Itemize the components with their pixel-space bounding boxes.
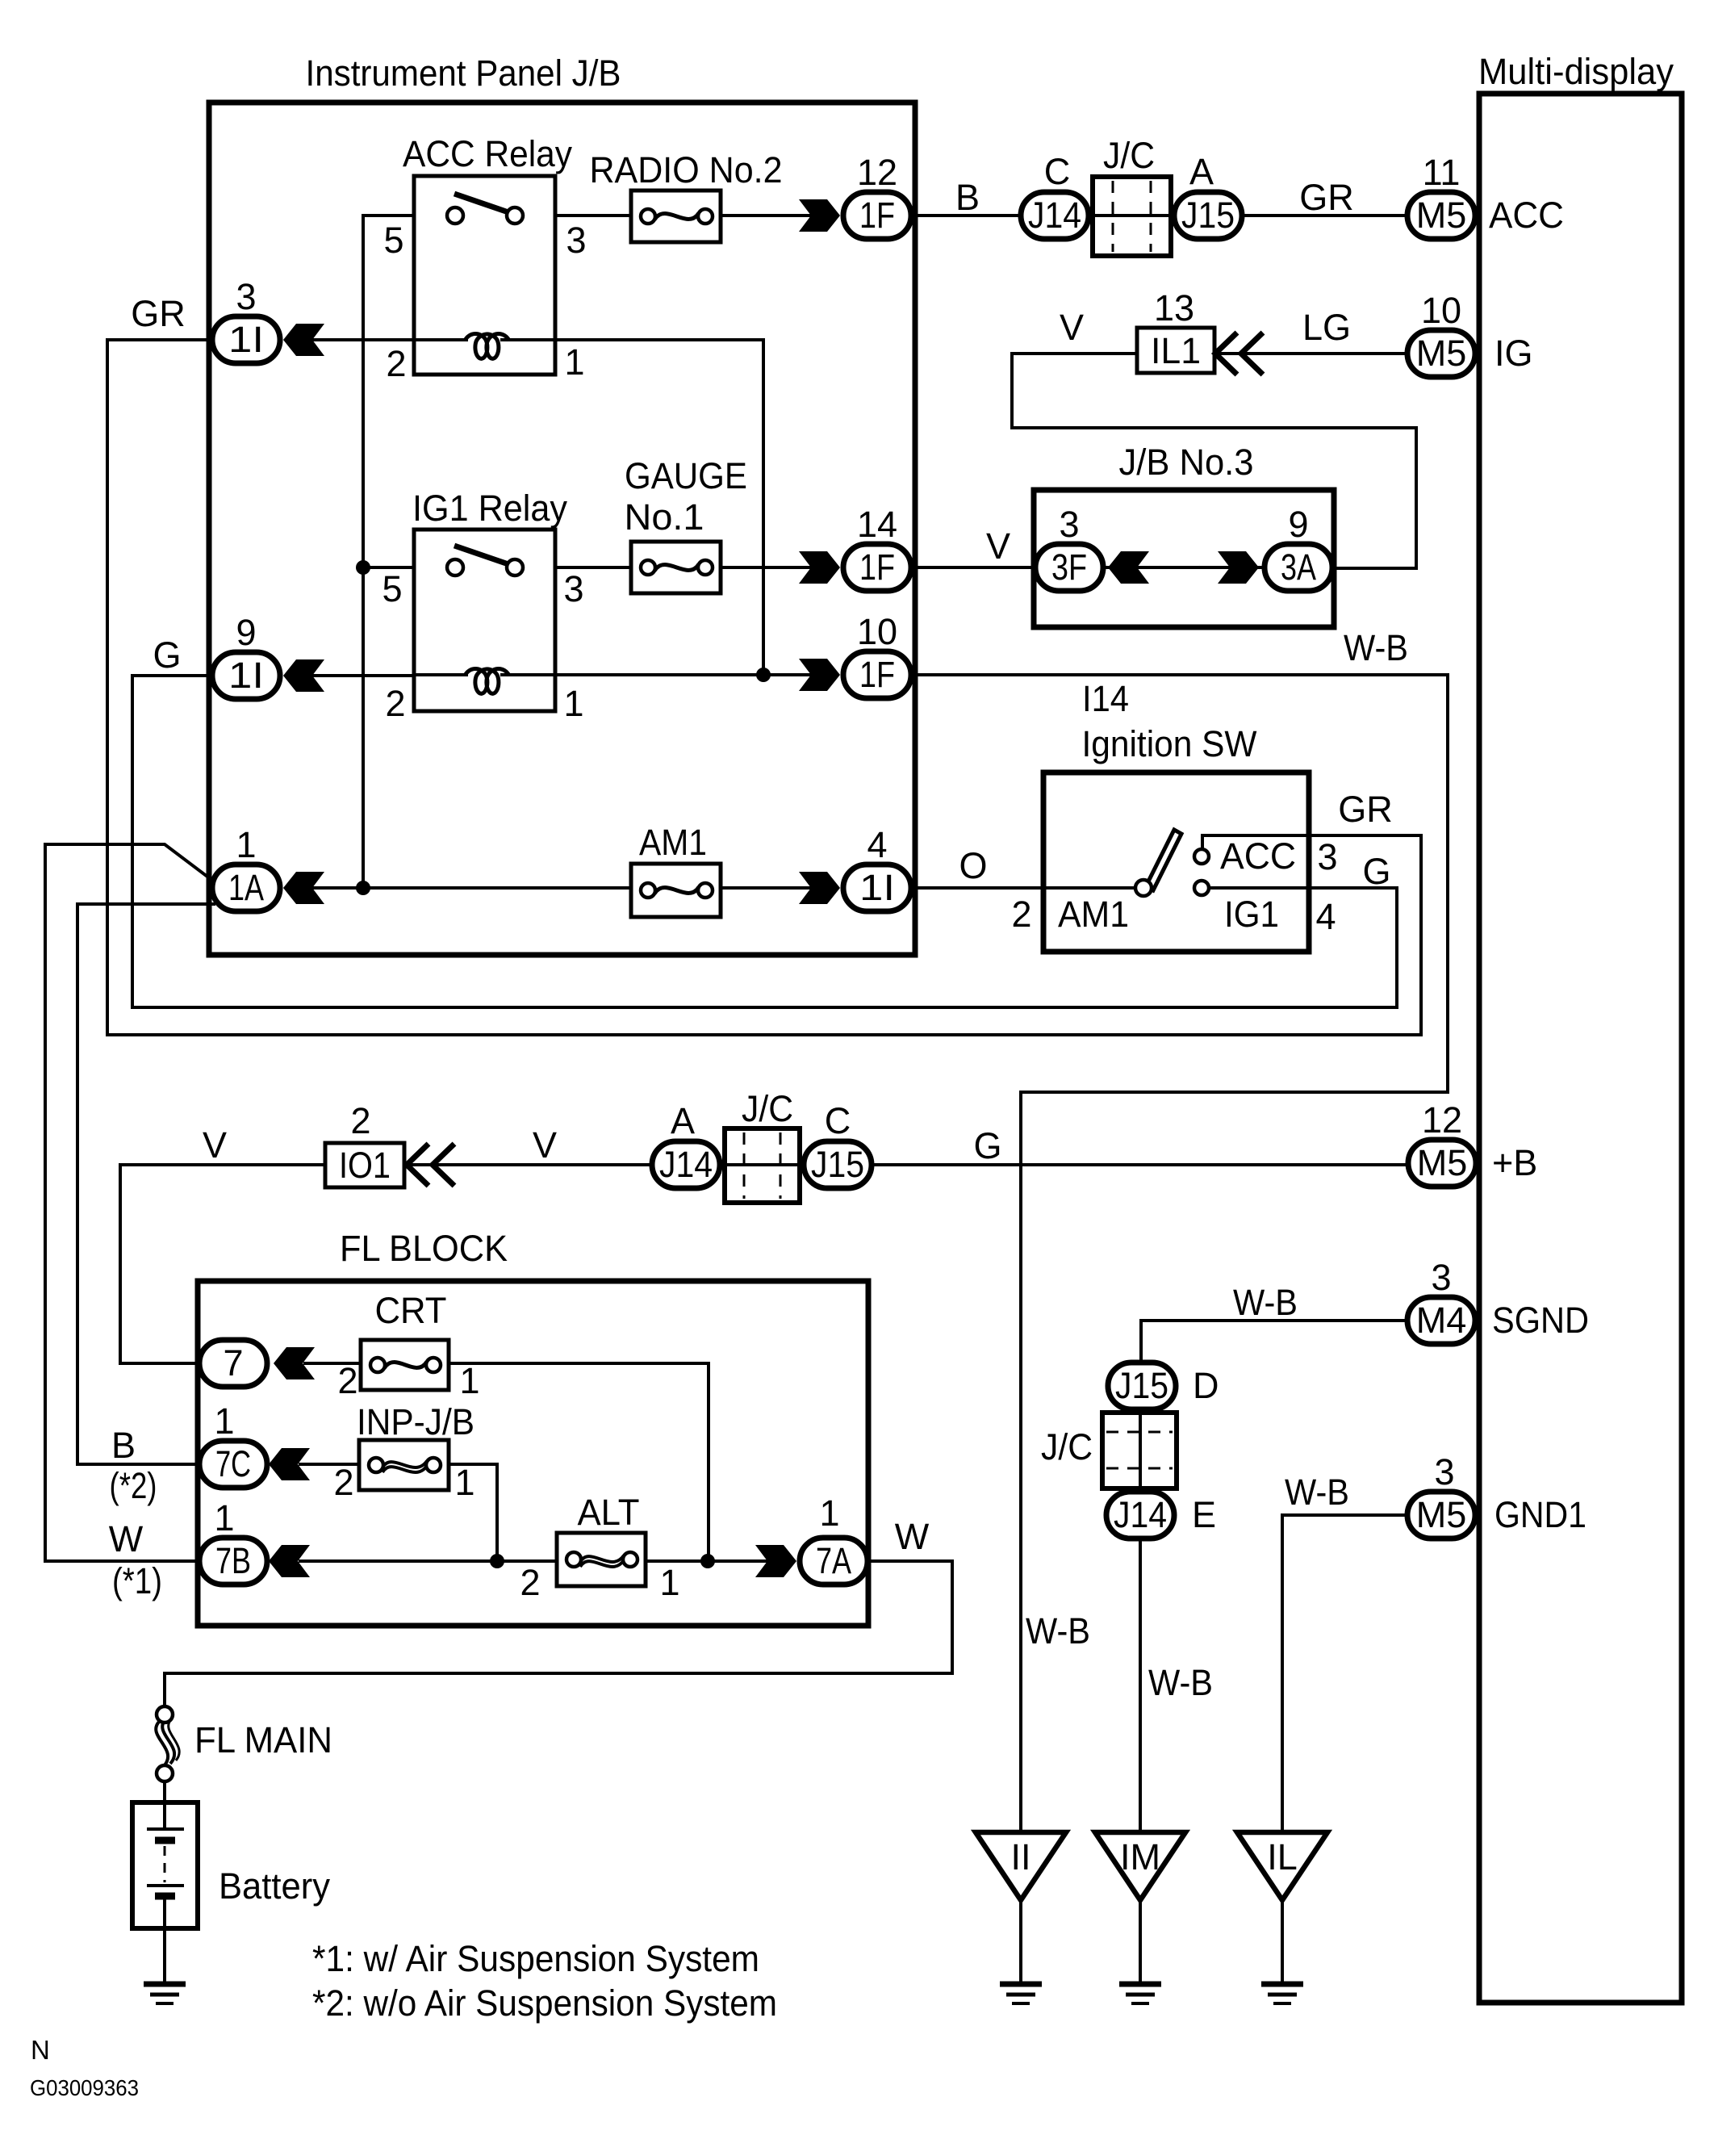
svg-text:J/B No.3: J/B No.3	[1119, 442, 1254, 483]
svg-text:J15: J15	[1181, 195, 1235, 236]
svg-text:C: C	[1044, 151, 1071, 192]
svg-text:2: 2	[333, 1462, 353, 1503]
svg-text:14: 14	[857, 504, 897, 545]
svg-text:2: 2	[337, 1360, 357, 1401]
svg-text:7A: 7A	[816, 1540, 851, 1581]
svg-text:G: G	[1362, 851, 1390, 892]
svg-text:D: D	[1193, 1365, 1219, 1406]
svg-text:*1: w/ Air Suspension System: *1: w/ Air Suspension System	[312, 1938, 759, 1979]
svg-text:SGND: SGND	[1492, 1300, 1589, 1341]
svg-text:3: 3	[563, 568, 583, 609]
svg-text:IL1: IL1	[1151, 330, 1201, 371]
svg-text:10: 10	[857, 611, 897, 652]
svg-text:3F: 3F	[1051, 546, 1087, 588]
svg-text:10: 10	[1421, 290, 1461, 331]
svg-text:C: C	[825, 1100, 851, 1141]
svg-text:LG: LG	[1302, 307, 1351, 348]
svg-text:Battery: Battery	[219, 1865, 330, 1907]
svg-text:GR: GR	[1299, 177, 1354, 218]
svg-text:2: 2	[386, 343, 406, 384]
svg-text:IO1: IO1	[339, 1145, 391, 1186]
svg-text:1F: 1F	[859, 195, 895, 236]
svg-text:G03009363: G03009363	[30, 2075, 139, 2100]
svg-text:J/C: J/C	[1103, 135, 1155, 176]
svg-text:W-B: W-B	[1026, 1610, 1090, 1652]
svg-text:1: 1	[819, 1492, 839, 1534]
svg-text:1I: 1I	[859, 867, 895, 908]
svg-text:IG1: IG1	[1224, 894, 1279, 935]
svg-text:3: 3	[1059, 504, 1079, 545]
svg-text:4: 4	[867, 824, 887, 865]
svg-text:M5: M5	[1417, 1142, 1468, 1183]
svg-text:4: 4	[1315, 896, 1336, 937]
svg-text:M5: M5	[1416, 1494, 1467, 1535]
svg-text:ALT: ALT	[578, 1492, 640, 1533]
svg-text:5: 5	[383, 220, 403, 261]
svg-text:V: V	[1060, 307, 1084, 348]
svg-text:E: E	[1192, 1494, 1216, 1535]
svg-text:M5: M5	[1416, 195, 1467, 236]
svg-text:J/C: J/C	[1041, 1426, 1093, 1467]
svg-text:W-B: W-B	[1285, 1472, 1349, 1513]
svg-text:W-B: W-B	[1344, 627, 1408, 668]
svg-text:1: 1	[214, 1497, 234, 1539]
svg-text:3: 3	[1431, 1257, 1451, 1298]
svg-text:Multi-display: Multi-display	[1478, 51, 1674, 92]
svg-text:9: 9	[1288, 504, 1308, 545]
svg-text:GR: GR	[1338, 789, 1393, 830]
svg-text:N: N	[31, 2035, 50, 2065]
svg-text:J14: J14	[1114, 1494, 1167, 1535]
svg-text:M5: M5	[1416, 333, 1467, 374]
svg-text:O: O	[959, 845, 987, 886]
svg-text:M4: M4	[1416, 1300, 1467, 1341]
svg-text:FL MAIN: FL MAIN	[194, 1719, 332, 1760]
svg-text:3A: 3A	[1281, 546, 1316, 588]
svg-text:3: 3	[236, 276, 256, 317]
svg-text:1: 1	[563, 683, 583, 724]
svg-text:(*2): (*2)	[110, 1465, 157, 1506]
svg-text:2: 2	[520, 1562, 540, 1603]
svg-text:3: 3	[1434, 1451, 1454, 1492]
svg-text:7B: 7B	[215, 1540, 251, 1581]
svg-text:ACC: ACC	[1489, 195, 1564, 236]
svg-text:II: II	[1010, 1836, 1030, 1878]
svg-text:1: 1	[214, 1400, 234, 1442]
svg-text:5: 5	[382, 568, 402, 609]
svg-text:+B: +B	[1492, 1142, 1537, 1183]
svg-text:2: 2	[1011, 894, 1031, 935]
svg-text:J14: J14	[659, 1144, 713, 1185]
svg-text:1: 1	[564, 341, 584, 383]
svg-text:Instrument Panel J/B: Instrument Panel J/B	[306, 52, 621, 94]
svg-text:IG: IG	[1495, 333, 1533, 374]
svg-text:IG1 Relay: IG1 Relay	[412, 488, 567, 529]
svg-text:7: 7	[223, 1342, 243, 1384]
svg-text:1A: 1A	[228, 867, 264, 908]
svg-text:1I: 1I	[228, 655, 264, 696]
svg-text:FL BLOCK: FL BLOCK	[340, 1228, 508, 1269]
svg-text:G: G	[973, 1125, 1001, 1166]
svg-text:V: V	[986, 525, 1010, 567]
svg-text:AM1: AM1	[639, 822, 707, 863]
svg-text:B: B	[955, 177, 980, 218]
svg-text:J15: J15	[811, 1144, 864, 1185]
svg-text:3: 3	[1317, 836, 1337, 877]
svg-text:B: B	[111, 1425, 136, 1466]
svg-text:A: A	[671, 1100, 695, 1141]
svg-text:GR: GR	[131, 293, 186, 334]
svg-text:W-B: W-B	[1148, 1662, 1213, 1703]
svg-text:1: 1	[236, 824, 256, 865]
svg-text:No.1: No.1	[625, 496, 704, 538]
svg-text:(*1): (*1)	[112, 1560, 162, 1601]
svg-text:V: V	[533, 1124, 557, 1166]
svg-text:13: 13	[1154, 287, 1194, 329]
svg-text:GND1: GND1	[1495, 1494, 1586, 1535]
svg-text:11: 11	[1423, 152, 1461, 193]
svg-text:2: 2	[350, 1100, 370, 1141]
svg-text:7C: 7C	[215, 1443, 251, 1484]
svg-text:ACC Relay: ACC Relay	[403, 133, 572, 174]
svg-text:1I: 1I	[228, 319, 264, 360]
svg-text:1: 1	[459, 1360, 479, 1401]
svg-text:1: 1	[659, 1562, 679, 1603]
svg-text:INP-J/B: INP-J/B	[357, 1401, 474, 1442]
svg-text:J14: J14	[1028, 195, 1081, 236]
svg-text:W-B: W-B	[1233, 1282, 1298, 1323]
svg-text:CRT: CRT	[375, 1290, 447, 1331]
svg-text:1F: 1F	[859, 654, 895, 695]
svg-text:W: W	[109, 1518, 144, 1559]
svg-text:IM: IM	[1120, 1836, 1160, 1878]
svg-text:IL: IL	[1267, 1836, 1298, 1878]
svg-text:3: 3	[566, 220, 586, 261]
svg-text:G: G	[153, 634, 181, 676]
svg-text:9: 9	[236, 612, 256, 653]
svg-text:2: 2	[385, 683, 405, 724]
svg-text:V: V	[203, 1124, 227, 1166]
svg-text:GAUGE: GAUGE	[625, 455, 747, 496]
svg-text:I14: I14	[1082, 678, 1129, 719]
svg-text:A: A	[1189, 151, 1214, 192]
svg-text:12: 12	[857, 152, 897, 193]
svg-text:*2: w/o Air Suspension System: *2: w/o Air Suspension System	[312, 1982, 777, 2024]
svg-text:1: 1	[454, 1462, 474, 1503]
svg-text:Ignition SW: Ignition SW	[1082, 723, 1257, 764]
svg-text:AM1: AM1	[1058, 894, 1129, 935]
svg-text:12: 12	[1422, 1099, 1462, 1141]
svg-text:ACC: ACC	[1220, 835, 1296, 877]
svg-text:J15: J15	[1115, 1365, 1168, 1406]
svg-text:1F: 1F	[859, 546, 895, 588]
svg-text:J/C: J/C	[742, 1088, 793, 1129]
svg-text:W: W	[895, 1516, 930, 1557]
svg-text:RADIO No.2: RADIO No.2	[590, 149, 783, 190]
